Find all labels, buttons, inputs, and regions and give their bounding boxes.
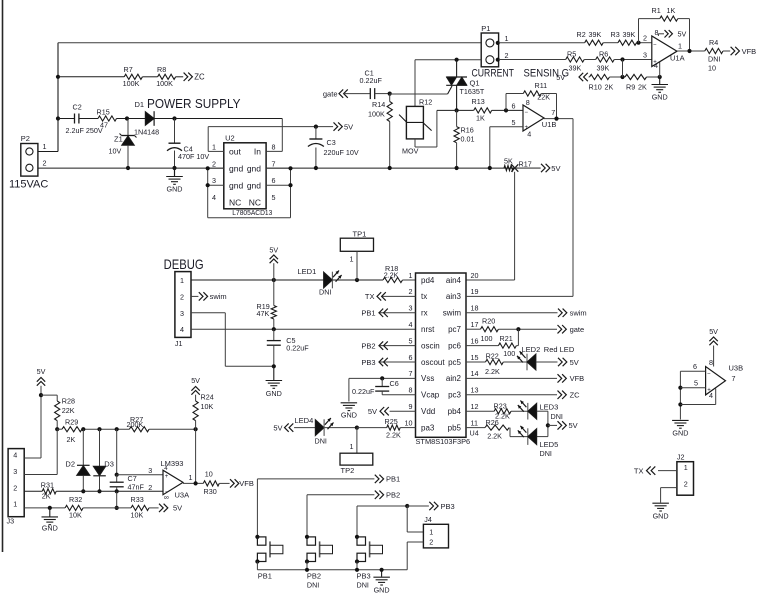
svg-text:PB3: PB3	[441, 502, 455, 511]
svg-text:2: 2	[409, 287, 413, 296]
svg-text:GND: GND	[653, 511, 669, 520]
svg-text:7: 7	[409, 369, 413, 378]
svg-text:NC: NC	[249, 197, 261, 207]
svg-text:VFB: VFB	[570, 374, 585, 383]
svg-text:MOV: MOV	[402, 147, 419, 156]
svg-text:PB2: PB2	[386, 491, 400, 500]
svg-text:PB3: PB3	[361, 358, 375, 367]
svg-text:out: out	[229, 147, 241, 157]
svg-text:gnd: gnd	[247, 180, 261, 190]
svg-text:GND: GND	[341, 411, 357, 420]
svg-text:1: 1	[409, 271, 413, 280]
svg-text:10K: 10K	[131, 511, 144, 520]
svg-text:2K: 2K	[605, 82, 614, 91]
svg-text:POWER SUPPLY: POWER SUPPLY	[147, 96, 241, 111]
svg-text:R22: R22	[486, 351, 499, 360]
svg-text:2.2K: 2.2K	[386, 431, 401, 440]
svg-text:PB2: PB2	[361, 341, 375, 350]
svg-text:8: 8	[409, 386, 413, 395]
svg-text:1: 1	[684, 463, 688, 472]
svg-text:pc7: pc7	[448, 325, 461, 334]
svg-text:4: 4	[13, 451, 17, 460]
svg-text:5V: 5V	[556, 73, 565, 82]
svg-text:tx: tx	[421, 292, 427, 301]
svg-text:R13: R13	[472, 97, 485, 106]
svg-text:+: +	[707, 388, 711, 394]
svg-text:U1B: U1B	[542, 120, 557, 129]
svg-text:TP2: TP2	[341, 466, 355, 475]
svg-text:R2: R2	[577, 30, 586, 39]
svg-text:R15: R15	[97, 107, 110, 116]
svg-text:100K: 100K	[368, 110, 385, 119]
svg-text:LED2: LED2	[522, 345, 541, 354]
svg-text:39K: 39K	[623, 30, 636, 39]
svg-text:U3A: U3A	[175, 491, 190, 500]
svg-text:1: 1	[429, 528, 433, 537]
svg-text:2.2K: 2.2K	[384, 271, 399, 280]
svg-text:5V: 5V	[344, 122, 353, 131]
svg-text:5V: 5V	[678, 30, 687, 39]
svg-text:In: In	[254, 147, 261, 157]
svg-text:39K: 39K	[569, 64, 582, 73]
svg-text:TX: TX	[634, 467, 644, 476]
svg-text:LED3: LED3	[540, 403, 559, 412]
svg-text:R11: R11	[535, 81, 548, 90]
svg-text:5V: 5V	[551, 164, 560, 173]
svg-text:1: 1	[350, 255, 354, 264]
svg-text:L7805ACD13: L7805ACD13	[232, 208, 272, 217]
svg-text:R10: R10	[589, 82, 602, 91]
svg-text:3: 3	[180, 309, 184, 318]
svg-text:PB2: PB2	[307, 572, 321, 581]
svg-text:3: 3	[409, 304, 413, 313]
svg-text:U1A: U1A	[670, 54, 685, 63]
svg-text:oscin: oscin	[421, 341, 440, 350]
svg-text:R33: R33	[131, 495, 144, 504]
svg-text:5V: 5V	[709, 327, 718, 336]
svg-text:6: 6	[272, 176, 276, 185]
svg-text:18: 18	[471, 304, 479, 313]
svg-text:R3: R3	[611, 30, 620, 39]
svg-text:J4: J4	[424, 515, 432, 524]
svg-text:pd4: pd4	[421, 276, 435, 285]
svg-text:8: 8	[709, 358, 713, 367]
svg-text:47nF: 47nF	[128, 483, 145, 492]
svg-text:10K: 10K	[201, 402, 214, 411]
svg-text:12: 12	[471, 402, 479, 411]
svg-text:PB1: PB1	[258, 572, 272, 581]
svg-text:5V: 5V	[37, 367, 46, 376]
svg-text:R29: R29	[65, 417, 78, 426]
svg-text:D1: D1	[135, 100, 145, 109]
svg-text:16: 16	[471, 336, 479, 345]
svg-text:P1: P1	[481, 24, 490, 33]
svg-text:DEBUG: DEBUG	[164, 256, 204, 272]
svg-text:5: 5	[409, 336, 413, 345]
svg-text:1: 1	[350, 442, 354, 451]
svg-text:2: 2	[180, 292, 184, 301]
svg-text:100: 100	[481, 334, 493, 343]
svg-text:DNI: DNI	[551, 412, 563, 421]
svg-text:2K: 2K	[42, 492, 51, 501]
svg-text:R12: R12	[419, 98, 432, 107]
svg-text:6: 6	[512, 102, 516, 111]
svg-text:1: 1	[13, 500, 17, 509]
svg-text:47K: 47K	[257, 309, 270, 318]
svg-text:VFB: VFB	[742, 47, 757, 56]
svg-text:PB3: PB3	[357, 572, 371, 581]
svg-text:R24: R24	[201, 393, 214, 402]
svg-text:pc5: pc5	[448, 358, 461, 367]
svg-text:NC: NC	[229, 197, 241, 207]
svg-text:R7: R7	[124, 65, 133, 74]
svg-text:STM8S103F3P6: STM8S103F3P6	[416, 437, 471, 446]
svg-text:6: 6	[409, 353, 413, 362]
svg-text:5V: 5V	[570, 358, 579, 367]
svg-text:gate: gate	[570, 325, 585, 334]
svg-text:+: +	[165, 474, 169, 480]
svg-text:pb5: pb5	[448, 423, 462, 432]
svg-text:5V: 5V	[173, 504, 182, 513]
svg-text:GND: GND	[42, 523, 58, 532]
svg-text:R9: R9	[626, 82, 635, 91]
svg-text:7: 7	[732, 374, 736, 383]
svg-text:5V: 5V	[273, 423, 282, 432]
svg-text:2.2K: 2.2K	[487, 432, 502, 441]
svg-text:1N4148: 1N4148	[134, 128, 159, 137]
svg-text:DNI: DNI	[708, 55, 720, 64]
svg-text:10V: 10V	[109, 147, 122, 156]
svg-text:0.22uF: 0.22uF	[360, 76, 383, 85]
svg-text:2K: 2K	[638, 82, 647, 91]
svg-text:100: 100	[503, 349, 515, 358]
svg-text:4: 4	[212, 193, 216, 202]
svg-text:220uF 10V: 220uF 10V	[324, 148, 359, 157]
svg-text:DNI: DNI	[357, 581, 369, 590]
svg-text:13: 13	[471, 386, 479, 395]
svg-text:0.22uF: 0.22uF	[352, 387, 375, 396]
svg-text:R17: R17	[519, 160, 532, 169]
svg-text:R16: R16	[461, 126, 474, 135]
svg-text:R23: R23	[494, 401, 507, 410]
svg-text:Red LED: Red LED	[544, 345, 575, 354]
svg-text:15: 15	[471, 353, 479, 362]
svg-text:6: 6	[693, 362, 697, 371]
svg-text:R26: R26	[486, 418, 499, 427]
svg-text:5V: 5V	[368, 407, 377, 416]
svg-text:−: −	[525, 110, 529, 116]
svg-text:9: 9	[409, 402, 413, 411]
svg-text:R25: R25	[385, 417, 398, 426]
svg-text:GND: GND	[672, 429, 688, 438]
svg-text:U3B: U3B	[729, 364, 744, 373]
svg-text:22K: 22K	[537, 93, 550, 102]
svg-text:Vdd: Vdd	[421, 407, 435, 416]
svg-text:ain4: ain4	[446, 276, 462, 285]
svg-text:PB1: PB1	[386, 475, 400, 484]
svg-text:Z1: Z1	[114, 135, 123, 144]
svg-text:DNI: DNI	[307, 581, 319, 590]
svg-text:5: 5	[694, 378, 698, 387]
svg-text:R8: R8	[157, 65, 166, 74]
svg-text:gate: gate	[323, 89, 338, 98]
svg-text:5: 5	[512, 118, 516, 127]
svg-text:pa3: pa3	[421, 423, 435, 432]
svg-text:5: 5	[272, 193, 276, 202]
svg-text:2: 2	[13, 483, 17, 492]
svg-text:pc6: pc6	[448, 341, 461, 350]
svg-text:rx: rx	[421, 309, 428, 318]
svg-text:39K: 39K	[597, 64, 610, 73]
svg-text:−: −	[707, 372, 711, 378]
svg-text:GND: GND	[167, 185, 183, 194]
svg-text:200K: 200K	[127, 420, 144, 429]
svg-text:ZC: ZC	[570, 391, 581, 400]
svg-text:10: 10	[205, 470, 213, 479]
svg-text:−: −	[653, 43, 657, 49]
svg-text:0.22uF: 0.22uF	[286, 344, 309, 353]
svg-text:2: 2	[212, 159, 216, 168]
svg-text:19: 19	[471, 287, 479, 296]
svg-text:1: 1	[189, 473, 193, 482]
svg-text:470F 10V: 470F 10V	[178, 152, 209, 161]
svg-text:TX: TX	[365, 292, 375, 301]
svg-text:3: 3	[212, 176, 216, 185]
svg-text:17: 17	[471, 320, 479, 329]
svg-text:PB1: PB1	[361, 309, 375, 318]
svg-text:2: 2	[643, 34, 647, 43]
svg-text:39K: 39K	[589, 30, 602, 39]
svg-text:3: 3	[148, 466, 152, 475]
svg-text:1K: 1K	[476, 114, 485, 123]
svg-text:C6: C6	[390, 379, 399, 388]
svg-text:8: 8	[526, 98, 530, 107]
svg-text:1: 1	[678, 42, 682, 51]
svg-text:D3: D3	[104, 459, 114, 468]
svg-text:pb4: pb4	[448, 407, 462, 416]
svg-text:ain2: ain2	[446, 374, 462, 383]
svg-text:ZC: ZC	[194, 73, 205, 82]
svg-text:ain3: ain3	[446, 292, 462, 301]
svg-text:GND: GND	[266, 389, 282, 398]
svg-text:4: 4	[409, 320, 413, 329]
svg-text:J3: J3	[7, 517, 15, 526]
svg-text:2.2K: 2.2K	[485, 367, 500, 376]
svg-text:115VAC: 115VAC	[9, 179, 48, 191]
svg-text:Vcap: Vcap	[421, 391, 440, 400]
svg-text:R20: R20	[482, 316, 495, 325]
svg-text:4: 4	[527, 130, 531, 139]
svg-text:5K: 5K	[504, 157, 513, 166]
svg-text:DNI: DNI	[315, 437, 327, 446]
svg-text:LED1: LED1	[298, 267, 317, 276]
svg-text:R21: R21	[500, 334, 513, 343]
svg-text:LED5: LED5	[540, 440, 559, 449]
svg-text:swim: swim	[443, 309, 462, 318]
svg-text:3: 3	[13, 467, 17, 476]
svg-text:J1: J1	[175, 339, 183, 348]
svg-text:10K: 10K	[69, 511, 82, 520]
svg-text:2.2uF 250V: 2.2uF 250V	[66, 126, 103, 135]
svg-text:GND: GND	[652, 93, 668, 102]
svg-text:T1635T: T1635T	[460, 87, 485, 96]
svg-text:5V: 5V	[569, 421, 578, 430]
svg-text:2K: 2K	[67, 435, 76, 444]
svg-text:C2: C2	[73, 102, 82, 111]
svg-text:7: 7	[551, 108, 555, 117]
svg-text:DNI: DNI	[540, 449, 552, 458]
svg-text:DNI: DNI	[319, 288, 331, 297]
svg-text:P2: P2	[21, 134, 30, 143]
svg-text:TP1: TP1	[353, 229, 367, 238]
svg-text:2: 2	[684, 480, 688, 489]
svg-text:0.01: 0.01	[461, 135, 475, 144]
svg-text:swim: swim	[570, 309, 587, 318]
svg-text:gnd: gnd	[247, 164, 261, 174]
svg-text:10: 10	[405, 418, 413, 427]
svg-text:10: 10	[708, 64, 716, 73]
svg-text:7: 7	[272, 159, 276, 168]
svg-text:1K: 1K	[667, 6, 676, 15]
svg-text:2: 2	[429, 538, 433, 547]
svg-text:pc3: pc3	[448, 391, 461, 400]
svg-text:nrst: nrst	[421, 325, 435, 334]
svg-text:GND: GND	[374, 586, 390, 595]
svg-text:2: 2	[148, 483, 152, 492]
svg-text:1: 1	[505, 34, 509, 43]
svg-text:R1: R1	[652, 6, 661, 15]
svg-text:gnd: gnd	[229, 164, 243, 174]
svg-text:5V: 5V	[269, 246, 278, 255]
svg-text:Vss: Vss	[421, 374, 434, 383]
svg-text:VFB: VFB	[239, 479, 254, 488]
svg-text:1: 1	[43, 142, 47, 151]
svg-text:2: 2	[43, 158, 47, 167]
svg-text:22K: 22K	[62, 406, 75, 415]
svg-text:3: 3	[643, 51, 647, 60]
svg-text:20: 20	[471, 271, 479, 280]
svg-text:+: +	[525, 125, 529, 131]
svg-text:R6: R6	[599, 50, 608, 59]
svg-text:oscout: oscout	[421, 358, 445, 367]
svg-text:14: 14	[471, 369, 479, 378]
svg-text:+: +	[653, 59, 657, 65]
svg-text:5V: 5V	[191, 376, 200, 385]
svg-text:R31: R31	[41, 481, 54, 490]
svg-text:U4: U4	[470, 429, 479, 438]
svg-text:47: 47	[100, 121, 108, 130]
svg-text:swim: swim	[210, 292, 227, 301]
svg-text:8: 8	[272, 142, 276, 151]
svg-text:2: 2	[505, 51, 509, 60]
svg-text:100K: 100K	[123, 79, 140, 88]
svg-text:−: −	[165, 490, 169, 496]
svg-text:J2: J2	[677, 453, 685, 462]
svg-text:R28: R28	[62, 397, 75, 406]
svg-text:D2: D2	[65, 459, 75, 468]
svg-text:1: 1	[180, 276, 184, 285]
svg-text:C3: C3	[327, 138, 336, 147]
svg-text:4: 4	[180, 325, 184, 334]
svg-text:R5: R5	[567, 50, 576, 59]
svg-text:LED4: LED4	[295, 416, 314, 425]
svg-text:1: 1	[212, 142, 216, 151]
svg-text:11: 11	[471, 418, 478, 427]
svg-text:R14: R14	[372, 100, 385, 109]
svg-text:100K: 100K	[156, 79, 173, 88]
svg-text:U2: U2	[225, 134, 235, 143]
svg-text:R4: R4	[709, 38, 718, 47]
svg-text:R30: R30	[204, 487, 217, 496]
svg-text:R32: R32	[69, 495, 82, 504]
svg-text:gnd: gnd	[229, 180, 243, 190]
